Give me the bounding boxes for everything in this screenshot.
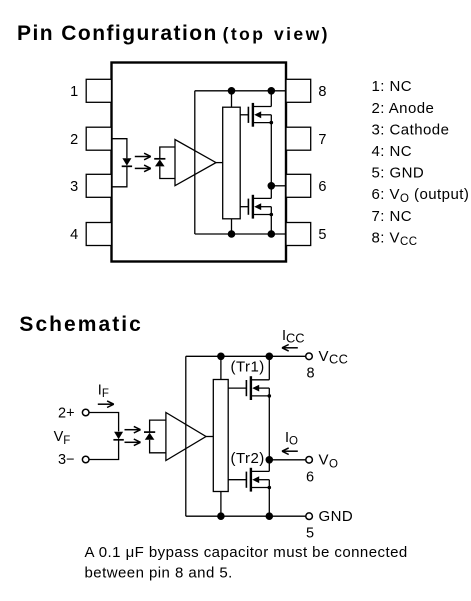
terminal VO xyxy=(306,457,313,464)
wire photodiode cathode to amp xyxy=(160,147,175,159)
pin 6 box xyxy=(286,174,311,197)
VCC rail (schematic top) xyxy=(186,355,306,357)
light arrow lower (schematic) xyxy=(125,439,141,446)
svg-text:VO: VO xyxy=(319,452,339,471)
LED (schematic input diode) xyxy=(113,432,123,440)
pin 8 box xyxy=(286,79,311,102)
svg-text:6: 6 xyxy=(306,469,314,485)
svg-text:(Tr2): (Tr2) xyxy=(231,450,265,467)
wire Tr1 drain to VCC rail xyxy=(270,91,272,107)
svg-text:5: GND: 5: GND xyxy=(372,165,425,182)
wire Tr1 drain to VCC rail (schematic) xyxy=(268,356,270,380)
junction dot bottom rail block xyxy=(228,230,236,238)
svg-text:7: 7 xyxy=(318,132,326,148)
wire block top lead (schematic) xyxy=(220,356,222,379)
wire Tr1 gate lead xyxy=(240,114,248,116)
arrow ICC xyxy=(282,345,298,352)
arrow IF xyxy=(98,401,114,408)
arrow IO xyxy=(282,448,298,455)
terminal GND xyxy=(306,513,313,520)
wire Tr2 drain to VO node (schematic) xyxy=(268,460,270,472)
svg-text:7: NC: 7: NC xyxy=(372,208,413,225)
terminal pin 2 xyxy=(82,409,89,416)
light arrow upper (schematic) xyxy=(125,426,141,433)
wire Tr1 source down to VO node xyxy=(270,123,272,186)
wire photodiode anode to amp (schematic) xyxy=(150,440,166,453)
wire photodiode anode to amp xyxy=(160,166,175,178)
junction dot GND rail block xyxy=(217,512,225,520)
wire block top lead xyxy=(231,91,233,107)
wire Tr2 source to GND rail xyxy=(270,215,272,235)
svg-text:ICC: ICC xyxy=(282,328,305,346)
svg-text:VCC: VCC xyxy=(319,348,349,367)
transistor Tr2 (schematic) xyxy=(246,468,271,492)
svg-text:4: 4 xyxy=(70,227,78,243)
wire photodiode cathode to amp (schematic) xyxy=(150,420,166,432)
junction dot top rail Tr1 drain xyxy=(268,87,276,95)
svg-text:(Tr1): (Tr1) xyxy=(231,358,265,375)
control block (schematic) xyxy=(213,380,228,492)
svg-text:2+: 2+ xyxy=(58,405,75,421)
wire Tr2 gate lead xyxy=(240,206,248,208)
pin 3 box xyxy=(86,174,111,197)
wire LED cathode to pin3 xyxy=(112,166,127,187)
supply line (left vertical) xyxy=(194,91,196,234)
svg-text:3−: 3− xyxy=(58,452,75,468)
svg-text:IO: IO xyxy=(285,430,298,448)
svg-text:Schematic: Schematic xyxy=(19,313,143,336)
node VO junction dot xyxy=(268,182,276,190)
wire VO node to pin 6 xyxy=(271,185,286,187)
wire pin2 to LED anode xyxy=(112,139,127,159)
svg-text:5: 5 xyxy=(306,526,314,542)
wire amp output to block (schematic) xyxy=(206,436,213,438)
svg-text:VF: VF xyxy=(54,429,71,447)
node VO junction dot (schematic) xyxy=(266,456,274,464)
op-amp A1 (pin config) xyxy=(175,140,216,186)
transistor Tr2 (pin config) xyxy=(248,195,273,219)
wire Tr1 gate lead (schematic) xyxy=(228,387,246,389)
svg-text:GND: GND xyxy=(319,508,354,525)
junction dot VCC rail block xyxy=(217,353,225,361)
supply line (schematic left vertical) xyxy=(185,356,187,516)
junction dot top rail block xyxy=(228,87,236,95)
svg-text:Pin Configuration(top view): Pin Configuration(top view) xyxy=(17,22,330,45)
op-amp A1 (schematic) xyxy=(166,413,206,461)
GND rail (schematic bottom) xyxy=(186,515,306,517)
svg-text:4: NC: 4: NC xyxy=(372,143,413,160)
svg-text:A 0.1 μF bypass capacitor must: A 0.1 μF bypass capacitor must be connec… xyxy=(85,544,408,561)
wire block bottom lead (schematic) xyxy=(220,492,222,517)
junction dot GND rail Tr2 source xyxy=(266,512,274,520)
pin 5 box xyxy=(286,223,311,246)
svg-text:IF: IF xyxy=(98,382,109,400)
svg-text:5: 5 xyxy=(318,227,326,243)
svg-text:3: 3 xyxy=(70,179,78,195)
photodiode (schematic) xyxy=(144,432,155,440)
wire Tr1 source down to VO node (schematic) xyxy=(268,396,270,460)
junction dot VCC rail Tr1 drain xyxy=(266,353,274,361)
svg-text:3: Cathode: 3: Cathode xyxy=(372,121,450,138)
light arrow upper xyxy=(135,153,151,160)
VCC rail (top) xyxy=(195,90,286,92)
package outline xyxy=(112,63,287,262)
wire Tr2 drain to VO node xyxy=(270,186,272,199)
terminal pin 3 xyxy=(82,456,89,463)
pin 4 box xyxy=(86,223,111,246)
GND rail (bottom) xyxy=(195,233,286,235)
svg-text:1: 1 xyxy=(70,84,78,100)
svg-text:between pin 8 and 5.: between pin 8 and 5. xyxy=(85,564,233,581)
photodiode xyxy=(154,159,165,167)
LED (input diode) xyxy=(122,158,132,166)
control block xyxy=(223,107,241,219)
wire block bottom lead xyxy=(231,219,233,234)
transistor Tr1 (schematic) xyxy=(246,376,271,400)
svg-text:8: VCC: 8: VCC xyxy=(372,229,418,248)
svg-text:8: 8 xyxy=(307,366,315,382)
transistor Tr1 (pin config) xyxy=(248,103,273,127)
wire pin2 terminal to LED xyxy=(89,413,119,432)
light arrow lower xyxy=(135,165,151,172)
pin 2 box xyxy=(86,127,111,150)
wire amp output to block xyxy=(216,162,223,164)
wire VO node to terminal xyxy=(269,459,306,461)
wire Tr2 gate lead (schematic) xyxy=(228,479,246,481)
svg-text:2: 2 xyxy=(70,132,78,148)
svg-text:8: 8 xyxy=(318,84,326,100)
wire Tr2 source to GND rail (schematic) xyxy=(268,488,270,517)
terminal VCC xyxy=(306,353,313,360)
svg-text:2: Anode: 2: Anode xyxy=(372,100,435,117)
svg-text:1: NC: 1: NC xyxy=(372,78,413,95)
pin 1 box xyxy=(86,79,111,102)
junction dot bottom rail Tr2 source xyxy=(268,230,276,238)
pin 7 box xyxy=(286,127,311,150)
wire LED to pin3 terminal xyxy=(89,440,119,460)
svg-text:6: VO (output): 6: VO (output) xyxy=(372,186,470,205)
svg-text:6: 6 xyxy=(318,179,326,195)
